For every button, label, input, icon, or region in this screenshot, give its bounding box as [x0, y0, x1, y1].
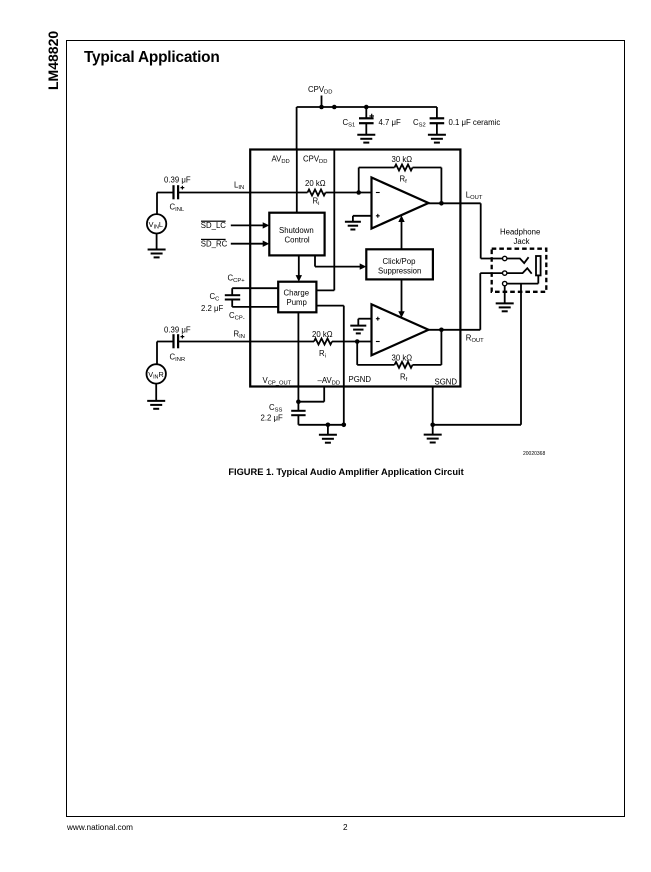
wire Ri bottom to opamp2 inverting input: [332, 341, 372, 343]
ground below PGND rail: [319, 425, 337, 443]
junction dot opamp1 output: [439, 201, 444, 206]
shutdown control block: [269, 213, 324, 256]
figure code number: [523, 451, 545, 457]
wire SD_LC into shutdown control with arrowhead: [231, 222, 269, 228]
jack ring contact with bump: [507, 268, 532, 274]
svg-text:SGND: SGND: [435, 378, 458, 387]
svg-text:30 kΩ: 30 kΩ: [392, 155, 413, 164]
pin label AVDD: [272, 154, 290, 165]
wire opamp1 feedback top right: [413, 167, 442, 169]
wire shutdown to charge pump with arrowhead: [296, 255, 302, 281]
wire CPVDD label stub: [321, 96, 323, 108]
svg-text:4.7 μF: 4.7 μF: [379, 118, 401, 127]
ground below SGND: [424, 425, 442, 443]
svg-text:CS1: CS1: [343, 118, 356, 129]
label Ri top value 20 kOhm: [305, 179, 326, 188]
svg-text:20 kΩ: 20 kΩ: [312, 330, 333, 339]
pin label SGND: [435, 378, 458, 387]
resistor Ri bottom 20k zigzag: [314, 339, 332, 345]
jack sleeve terminal circle: [503, 281, 507, 285]
wire VINL bottom lead: [156, 234, 158, 250]
svg-text:LOUT: LOUT: [466, 190, 483, 201]
label Ri bottom: [319, 349, 326, 360]
label Rf top: [400, 175, 408, 186]
net label SD_RC with overline: [201, 239, 228, 249]
svg-text:Charge: Charge: [284, 289, 310, 298]
wire opamp1 feedback left leg: [358, 168, 360, 193]
junction dot opamp2 output: [439, 328, 444, 333]
wire VINL top lead: [156, 193, 158, 215]
op-amp U2 right channel: [372, 304, 429, 355]
source VINL: [147, 214, 166, 233]
wire VINR bottom lead: [155, 384, 157, 401]
wire VCP_OUT to -AVDD pin: [298, 387, 324, 402]
wire VINR top lead: [156, 342, 158, 365]
svg-text:0.39 μF: 0.39 μF: [164, 326, 191, 335]
resistor Rf top 30k zigzag: [395, 165, 413, 171]
svg-text:0.39 μF: 0.39 μF: [164, 176, 191, 185]
svg-text:CSS: CSS: [269, 403, 283, 414]
net label SD_LC with overline: [201, 221, 227, 230]
headphone jack dashed box: [492, 249, 547, 292]
net CPVDD top label: [308, 85, 332, 96]
junction dot supply/CPVDD column: [332, 105, 337, 110]
svg-text:Rf: Rf: [400, 175, 408, 186]
wire SD_RC into shutdown control with arrowhead: [231, 241, 269, 247]
label CINR value 0.39 uF: [164, 326, 191, 335]
svg-text:Click/Pop: Click/Pop: [383, 257, 417, 266]
svg-text:20020368: 20020368: [523, 451, 545, 457]
jack sleeve body: [536, 256, 541, 275]
IC LM48820 outline box: [250, 150, 460, 387]
wire CPVDD internal column to charge pump: [316, 150, 334, 291]
pin label PGND: [349, 375, 372, 384]
pin label ROUT: [466, 334, 484, 345]
label CSS: [269, 403, 283, 414]
wire ROUT to jack ring: [480, 273, 502, 330]
svg-text:CINR: CINR: [170, 353, 186, 364]
pin label LOUT: [466, 190, 483, 201]
wire clickpop to opamp2 with down arrowhead: [398, 279, 404, 317]
svg-text:Pump: Pump: [287, 298, 308, 307]
wire opamp1 feedback right leg: [440, 168, 442, 204]
capacitor CS1 4.7uF: [359, 105, 374, 135]
wire LOUT to jack tip: [481, 203, 503, 258]
wire charge pump VCP_OUT down: [297, 312, 299, 411]
svg-text:CPVDD: CPVDD: [303, 154, 327, 165]
svg-text:RIN: RIN: [234, 330, 245, 341]
ground below jack: [496, 286, 514, 312]
svg-text:CCP-: CCP-: [229, 311, 245, 322]
wire RIN pin to Ri bottom: [250, 341, 314, 343]
ground below CS2: [428, 135, 446, 143]
wire CCP+ pin to charge pump: [232, 288, 278, 295]
pin label VCP_OUT: [263, 376, 292, 387]
svg-text:20 kΩ: 20 kΩ: [305, 179, 326, 188]
svg-text:Control: Control: [285, 236, 310, 245]
label Rf bottom value 30 kOhm: [392, 353, 413, 362]
resistor Ri top 20k zigzag: [308, 190, 326, 196]
label CS1 value 4.7 uF: [379, 118, 401, 127]
svg-text:SD_LC: SD_LC: [201, 221, 227, 230]
capacitor CS2 0.1uF: [430, 107, 445, 135]
wire CINR to RIN pin: [178, 341, 250, 343]
pin label LIN: [234, 181, 244, 192]
svg-text:LIN: LIN: [234, 181, 244, 192]
page border frame: [66, 40, 625, 817]
label CINL value 0.39 uF: [164, 176, 191, 185]
label CINR: [170, 353, 186, 364]
wire opamp2 feedback bottom right: [413, 364, 442, 366]
click/pop suppression block: [366, 249, 433, 279]
wire jack sleeve branch to SGND rail: [520, 284, 522, 425]
wire Ri to opamp1 inverting input: [326, 192, 372, 194]
svg-text:AVDD: AVDD: [272, 154, 290, 165]
svg-text:CCP+: CCP+: [228, 274, 246, 285]
wire SGND pin down: [432, 387, 434, 425]
capacitor CSS: [291, 411, 305, 425]
svg-text:2.2 μF: 2.2 μF: [201, 304, 223, 313]
svg-text:VINL: VINL: [149, 220, 163, 231]
pin label CCP-: [229, 311, 245, 322]
pin label CPVDD: [303, 154, 327, 165]
svg-text:Suppression: Suppression: [378, 267, 421, 276]
label Ri top: [313, 197, 320, 208]
svg-text:VINR: VINR: [148, 370, 164, 381]
junction dot SGND node: [430, 423, 435, 428]
junction dot ground rail stub: [326, 423, 331, 428]
svg-text:Ri: Ri: [313, 197, 320, 208]
ground at opamp2 noninverting input: [350, 319, 371, 334]
wire opamp2 feedback right leg: [440, 330, 442, 365]
svg-text:ROUT: ROUT: [466, 334, 484, 345]
wire charge pump PGND to ground rail: [316, 306, 343, 425]
wire supply rail: [297, 106, 437, 108]
wire opamp2 feedback bottom left: [357, 364, 394, 366]
wire CCP- pin to charge pump: [232, 300, 278, 307]
svg-text:Shutdown: Shutdown: [279, 226, 314, 235]
wire opamp2 feedback left leg: [356, 342, 358, 365]
charge pump block: [278, 282, 316, 313]
wire VINR to CINR: [157, 341, 174, 343]
svg-text:Ri: Ri: [319, 349, 326, 360]
source VINR: [147, 364, 166, 383]
wire PGND ground rail: [298, 424, 343, 426]
wire VINL to CINL: [157, 192, 174, 194]
capacitor CC flying cap: [225, 295, 240, 299]
junction dot ground rail PGND: [342, 423, 347, 428]
wire clickpop to opamp1 with up arrowhead: [398, 215, 404, 249]
ground at opamp1 noninverting input: [345, 216, 372, 230]
label CS1: [343, 118, 356, 129]
svg-text:–AVDD: –AVDD: [318, 376, 341, 387]
svg-text:VCP_OUT: VCP_OUT: [263, 376, 292, 387]
jack ring terminal circle: [503, 271, 507, 275]
wire CINL to LIN pin: [178, 192, 250, 194]
label headphone jack: [500, 228, 540, 247]
wire LIN pin to Ri: [250, 192, 307, 194]
svg-text:0.1 μF ceramic: 0.1 μF ceramic: [449, 118, 501, 127]
label CC value 2.2 uF: [201, 304, 223, 313]
ground below VINL: [148, 250, 166, 258]
svg-text:SD_RC: SD_RC: [201, 239, 228, 248]
wire SGND rail to jack branch: [433, 424, 521, 426]
pin label CCP+: [228, 274, 246, 285]
capacitor CINR: [174, 334, 185, 348]
label CINL: [170, 203, 185, 214]
capacitor CINL: [174, 185, 185, 199]
svg-text:Jack: Jack: [514, 237, 530, 246]
op-amp U1 left channel: [372, 178, 429, 229]
label CS2 value 0.1 uF ceramic: [449, 118, 501, 127]
pin label RIN: [234, 330, 245, 341]
svg-text:CPVDD: CPVDD: [308, 85, 332, 96]
wire AVDD pin drop: [296, 107, 298, 150]
jack tip contact with V break: [507, 257, 529, 263]
label CSS value 2.2 uF: [261, 414, 283, 423]
junction dot supply/CPVDD stub: [319, 105, 324, 110]
svg-text:CINL: CINL: [170, 203, 185, 214]
label CS2: [413, 118, 426, 129]
svg-text:Headphone: Headphone: [500, 228, 540, 237]
svg-text:Rf: Rf: [400, 373, 408, 384]
ground below CS1: [357, 135, 375, 143]
label Ri bottom value 20 kOhm: [312, 330, 333, 339]
label Rf top value 30 kOhm: [392, 155, 413, 164]
wire AVDD internal column to shutdown control: [296, 150, 298, 213]
wire opamp1 output to LOUT pin: [429, 202, 481, 204]
pin label -AVDD: [318, 376, 341, 387]
svg-text:2.2 μF: 2.2 μF: [261, 414, 283, 423]
junction dot feedback tap opamp2: [355, 339, 360, 344]
junction dot feedback tap opamp1: [356, 190, 361, 195]
wire opamp2 output to ROUT pin: [429, 329, 481, 331]
jack tip terminal circle: [503, 256, 507, 260]
wire opamp1 feedback top left: [359, 167, 395, 169]
svg-text:30 kΩ: 30 kΩ: [392, 353, 413, 362]
svg-text:CS2: CS2: [413, 118, 426, 129]
wire shutdown to clickpop with arrowhead: [315, 255, 366, 269]
label CC: [210, 292, 220, 303]
label Rf bottom: [400, 373, 408, 384]
svg-text:PGND: PGND: [349, 375, 372, 384]
svg-text:CC: CC: [210, 292, 220, 303]
resistor Rf bottom 30k zigzag: [395, 362, 413, 368]
junction dot VCP_OUT node: [296, 399, 301, 404]
ground below VINR: [147, 401, 165, 409]
wire sleeve to ground terminal: [507, 275, 538, 283]
